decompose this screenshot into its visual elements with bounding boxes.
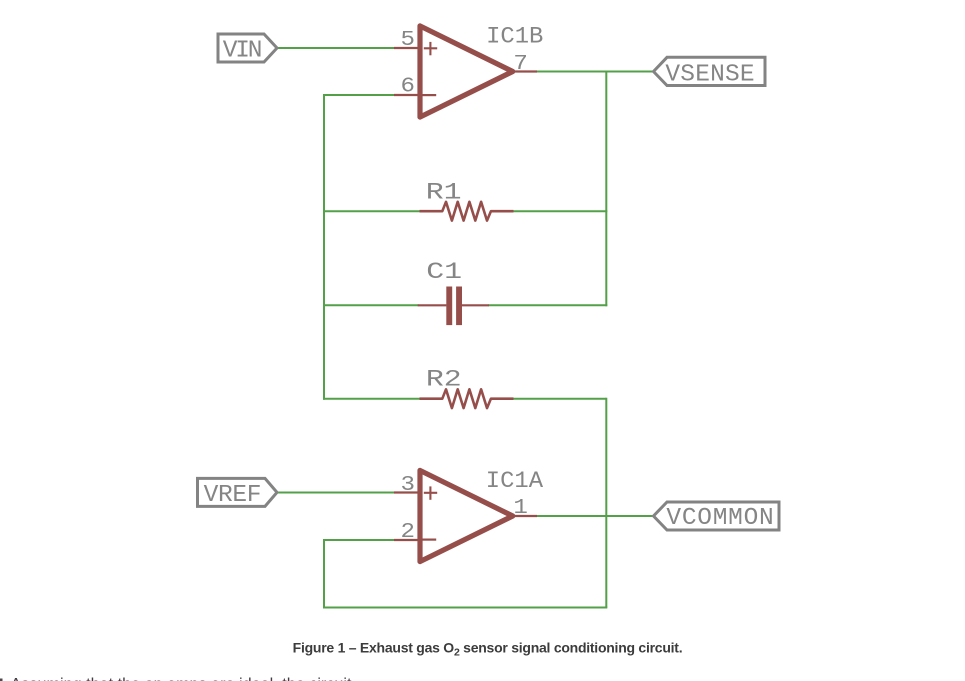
svg-text:R2: R2 [426,368,462,394]
wire R2 row right [513,398,606,400]
op-amp IC1B minus input marker [422,94,436,96]
flag VCOMMON [654,502,780,530]
resistor R2 [420,389,514,408]
svg-text:3: 3 [401,472,415,496]
partial glyph at left margin [0,679,3,681]
capacitor C1 [418,287,489,326]
pin 3 lead [394,491,418,493]
pin 5 lead [394,47,418,49]
svg-text:VREF: VREF [204,482,262,509]
svg-text:C1: C1 [426,260,462,286]
pin 7 output lead [514,70,538,72]
wire pin 2 horizontal [323,539,395,541]
op-amp IC1B plus input marker [424,42,437,55]
svg-text:VIN: VIN [223,38,263,65]
svg-text:IC1B: IC1B [486,25,543,51]
svg-text:1: 1 [513,495,527,519]
wire output IC1A to VCOMMON [536,515,654,517]
flag VIN [218,34,277,62]
svg-text:6: 6 [401,74,415,98]
wire right vertical (output to C1 row) [605,71,607,307]
svg-text:VCOMMON: VCOMMON [666,505,773,532]
op-amp U IC1A triangle [420,470,513,561]
pin 2 lead [394,539,418,541]
pin 1 output lead [514,515,538,517]
flag VSENSE [654,57,766,85]
wire left vertical bus (pin6 to R2 row) [323,94,325,400]
svg-text:R1: R1 [426,180,462,206]
wire bottom horizontal [323,607,607,609]
pin 6 lead [394,94,418,96]
wire right vertical (R2 row to bottom) [605,398,607,608]
wire output IC1B to VSENSE [536,71,654,73]
op-amp U IC1B triangle [420,26,513,117]
svg-text:5: 5 [401,27,415,51]
wire R1 row left [323,210,420,212]
svg-text:2: 2 [401,519,415,543]
op-amp IC1A plus input marker [424,486,437,499]
svg-text:Assuming that the op amps are: Assuming that the op amps are ideal, the… [11,676,353,681]
svg-text:VSENSE: VSENSE [665,61,754,88]
flag VREF [198,478,278,506]
wire R2 row left [323,398,420,400]
wire R1 row right [513,210,607,212]
svg-text:IC1A: IC1A [486,469,544,495]
wire left vertical (pin2 down) [323,539,325,608]
wire VIN to pin 5 [277,47,395,49]
wire pin 6 horizontal [323,94,395,96]
wire C1 row right [489,304,608,306]
svg-text:7: 7 [513,51,527,75]
wire C1 row left [323,304,419,306]
op-amp IC1A minus input marker [422,538,436,540]
wire VREF to pin 3 [277,492,395,494]
resistor R1 [420,202,514,221]
